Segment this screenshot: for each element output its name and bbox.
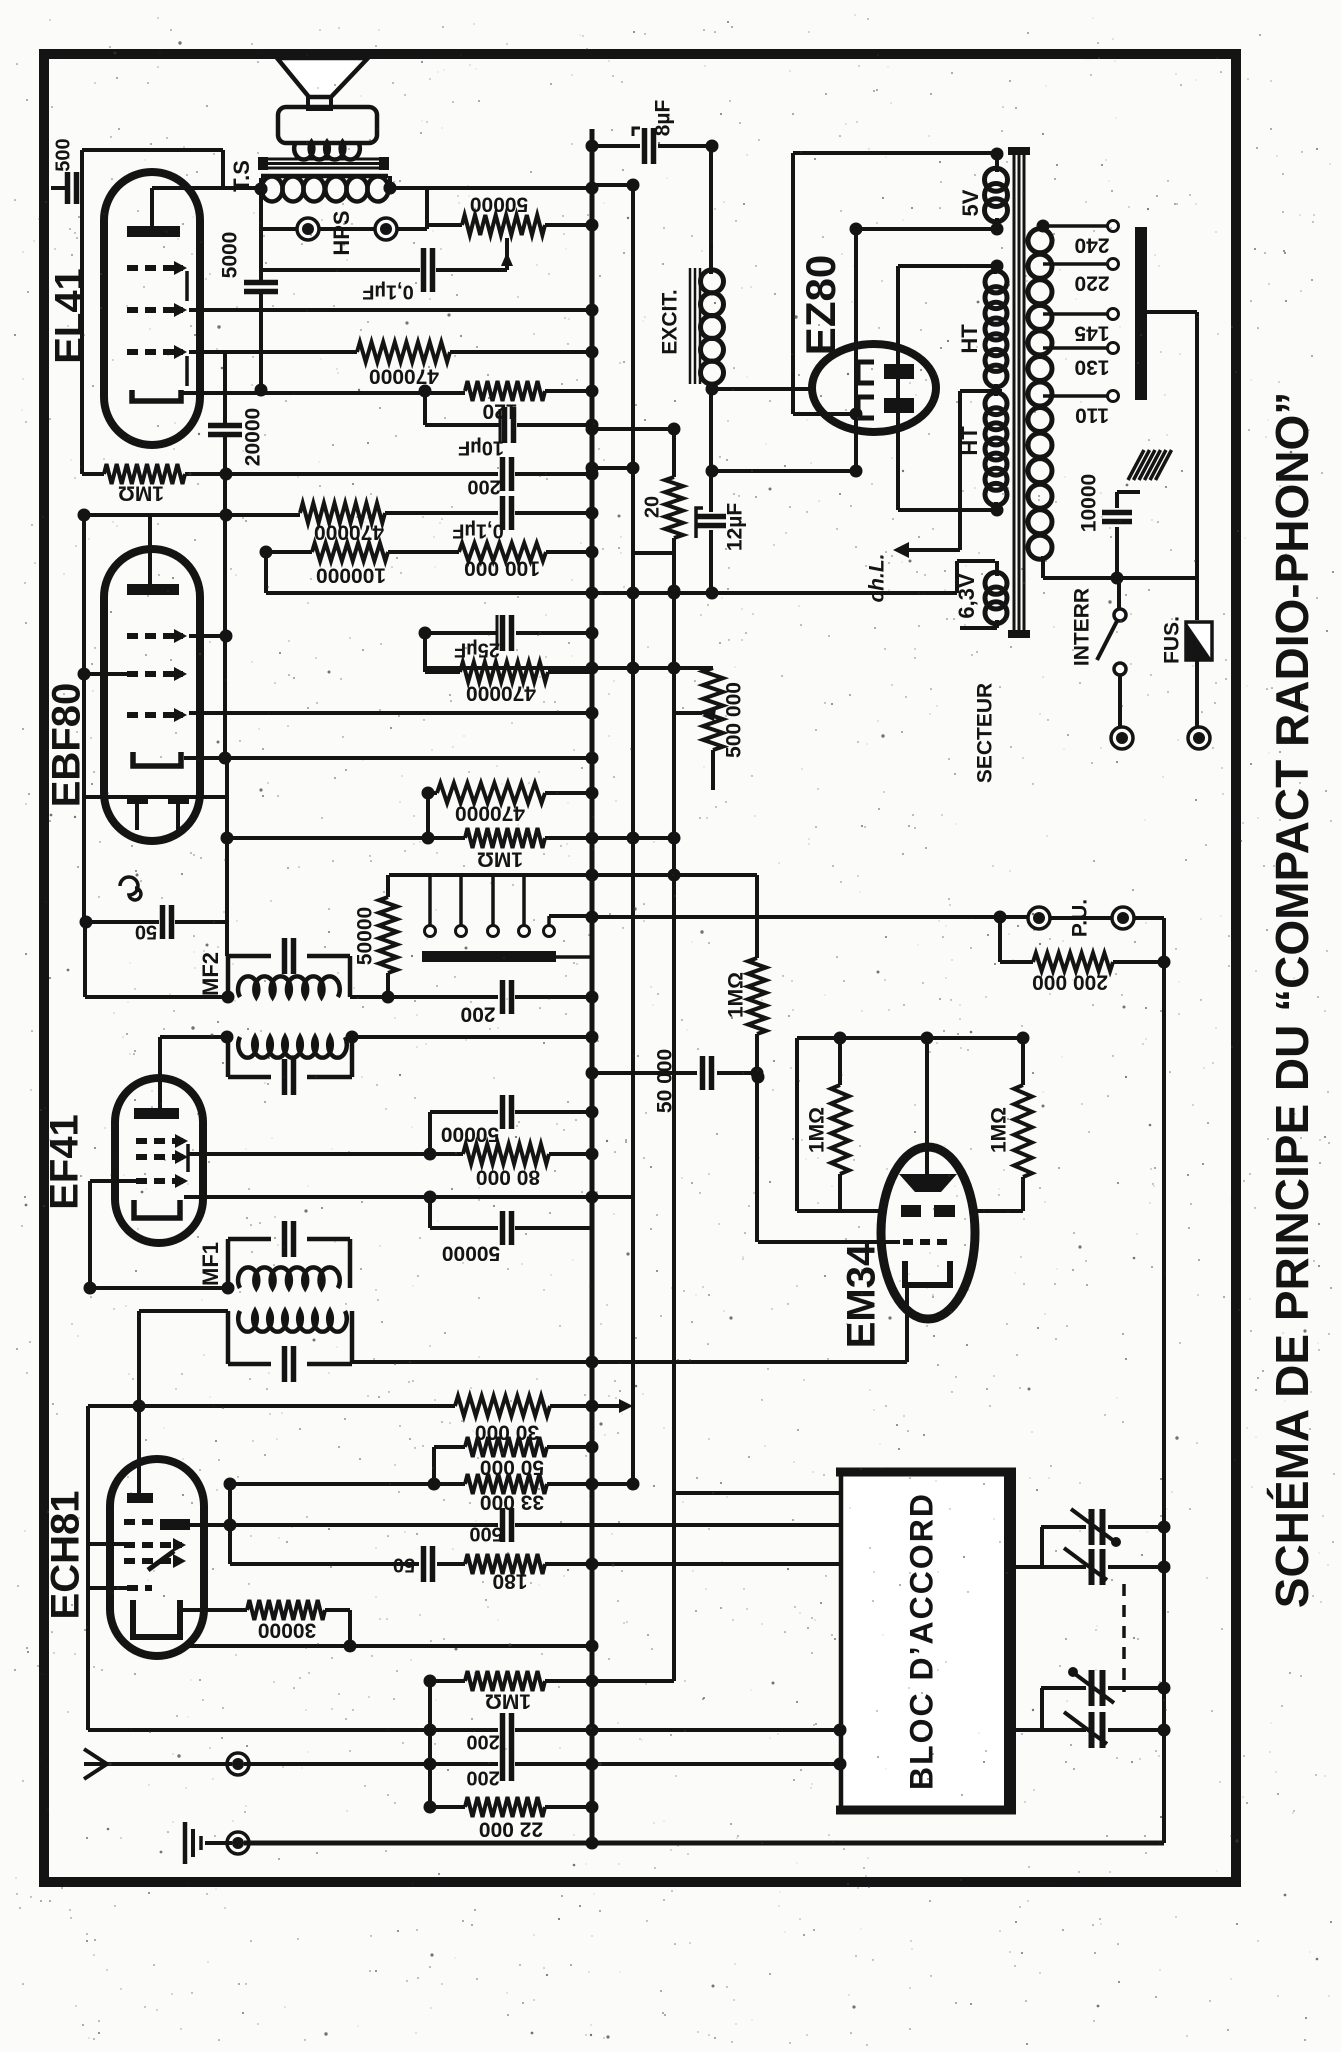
svg-text:200: 200 [466,1767,499,1789]
svg-text:1MΩ: 1MΩ [988,1107,1011,1153]
svg-text:5000: 5000 [219,232,242,279]
svg-text:220: 220 [1074,271,1109,294]
svg-text:10µF: 10µF [458,437,504,459]
svg-text:30000: 30000 [258,1618,316,1641]
svg-text:22 000: 22 000 [479,1817,543,1840]
svg-text:200 000: 200 000 [1032,970,1108,993]
svg-text:0,1µF: 0,1µF [452,520,504,542]
svg-text:EXCIT.: EXCIT. [659,289,682,354]
svg-text:470000: 470000 [466,681,536,704]
svg-text:470000: 470000 [369,364,439,387]
svg-text:6,3V: 6,3V [954,573,979,619]
svg-text:1MΩ: 1MΩ [806,1107,829,1153]
svg-text:5V: 5V [958,189,983,216]
svg-text:12µF: 12µF [724,503,747,551]
svg-text:HPS: HPS [329,210,354,255]
svg-text:INTERR: INTERR [1071,588,1094,666]
svg-text:200: 200 [460,1002,495,1025]
svg-text:100 000: 100 000 [464,556,540,579]
svg-text:50 000: 50 000 [654,1049,677,1113]
svg-text:500: 500 [469,1523,502,1545]
svg-text:EBF80: EBF80 [45,683,89,808]
svg-text:1MΩ: 1MΩ [485,1689,531,1712]
svg-text:50000: 50000 [442,1241,500,1264]
svg-text:EM34: EM34 [840,1243,884,1348]
svg-text:ECH81: ECH81 [44,1491,88,1620]
svg-text:50000: 50000 [354,907,377,965]
svg-text:200: 200 [466,1731,499,1753]
svg-text:50: 50 [135,921,157,943]
svg-text:50000: 50000 [470,192,528,215]
svg-text:10000: 10000 [1078,474,1101,532]
svg-text:180: 180 [492,1569,527,1592]
svg-text:HT: HT [957,426,982,456]
svg-text:130: 130 [1074,355,1109,378]
svg-text:SCHÉMA DE PRINCIPE DU “COM: SCHÉMA DE PRINCIPE DU “COMPACT RADIO-PHO… [1266,392,1318,1608]
svg-text:470000: 470000 [455,801,525,824]
svg-text:1MΩ: 1MΩ [477,847,523,870]
svg-text:25µF: 25µF [454,639,500,661]
svg-text:MF2: MF2 [198,952,223,996]
svg-text:240: 240 [1074,233,1109,256]
svg-text:500 000: 500 000 [723,682,746,758]
svg-text:MF1: MF1 [198,1242,223,1286]
svg-text:500: 500 [52,138,74,171]
svg-text:BLOC D’ACCORD: BLOC D’ACCORD [903,1492,939,1790]
svg-text:SECTEUR: SECTEUR [974,683,997,783]
svg-text:0,1µF: 0,1µF [362,281,414,303]
svg-text:HT: HT [957,324,982,354]
svg-text:1MΩ: 1MΩ [725,972,748,1018]
svg-text:8µF: 8µF [652,100,675,137]
svg-text:ch.L.: ch.L. [866,553,889,602]
svg-text:145: 145 [1074,321,1109,344]
svg-text:1MΩ: 1MΩ [118,481,164,504]
svg-text:EF41: EF41 [43,1114,87,1210]
svg-text:50000: 50000 [441,1122,499,1145]
svg-text:EZ80: EZ80 [797,255,844,355]
svg-text:100000: 100000 [316,563,386,586]
svg-text:20000: 20000 [242,408,265,466]
svg-text:200: 200 [467,476,500,498]
svg-text:110: 110 [1075,403,1109,426]
svg-text:EL41: EL41 [48,268,92,364]
svg-text:FUS.: FUS. [1161,616,1184,664]
svg-text:50: 50 [393,1554,415,1576]
svg-text:20: 20 [641,496,663,518]
svg-text:T.S: T.S [229,160,254,192]
